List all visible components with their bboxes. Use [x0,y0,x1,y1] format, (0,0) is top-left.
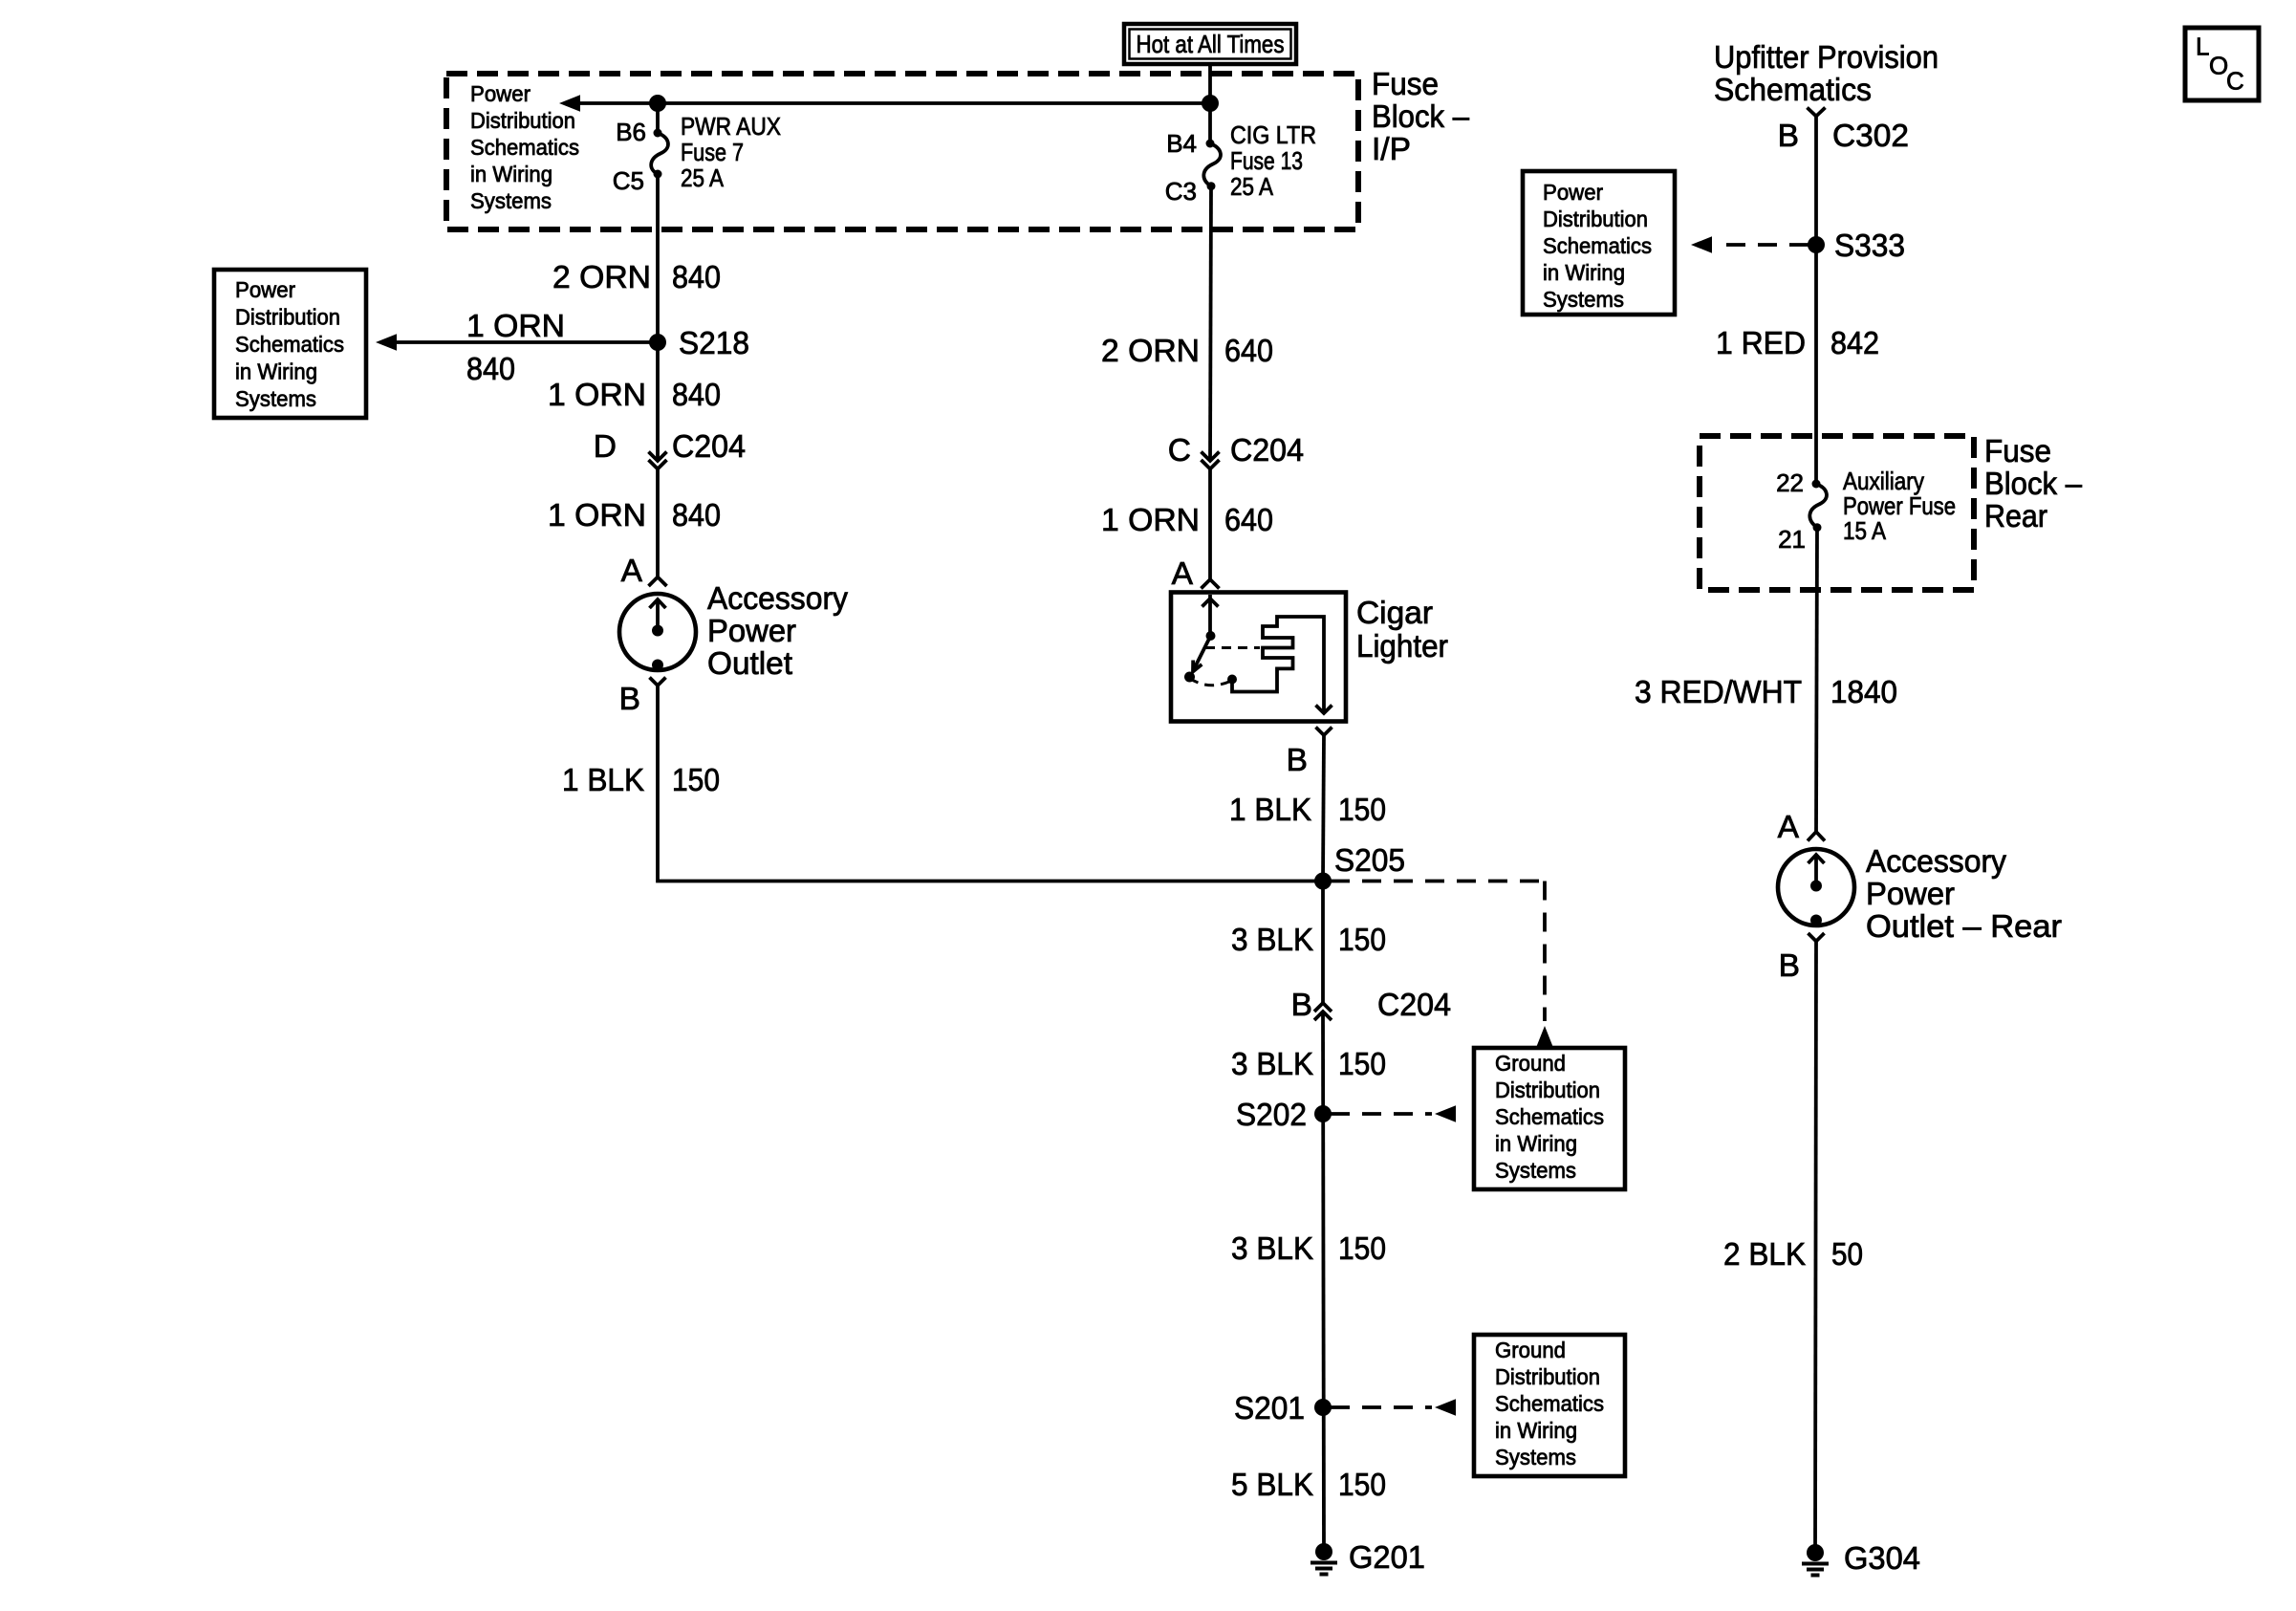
dashed reference from S201 to ground distribution box [1331,1399,1456,1415]
accessory power outlet rear label [1866,844,2062,945]
svg-text:640: 640 [1224,334,1273,369]
svg-text:840: 840 [466,352,515,387]
svg-text:150: 150 [1338,793,1386,828]
svg-text:B: B [1779,948,1800,984]
svg-text:Power: Power [470,81,531,106]
wire label 1 ORN 840 (branch) [466,309,565,387]
connector pin B chevron [1316,728,1332,736]
ground G201 [1310,1543,1337,1575]
fuse block I/P dashed box [446,74,1358,229]
svg-text:Upfitter Provision: Upfitter Provision [1714,40,1939,76]
svg-text:5 BLK: 5 BLK [1231,1468,1313,1503]
wire from S218 to Power Distribution Schematics (arrow) [376,334,658,350]
wire label 2 ORN 840 [552,260,721,295]
Fuse Block I/P title [1372,67,1469,167]
wire label 1 ORN 840 [548,498,721,533]
svg-text:S205: S205 [1334,843,1405,879]
accessory power outlet [619,594,696,671]
wire cigar lighter B to S205 [1323,735,1324,882]
svg-text:Systems: Systems [1543,287,1624,312]
svg-text:S201: S201 [1234,1391,1305,1426]
Power Distribution Schematics box (left) [214,270,366,418]
svg-text:in Wiring: in Wiring [1543,260,1625,285]
svg-text:S218: S218 [679,326,749,361]
wire label 2 BLK 50 [1723,1237,1863,1273]
svg-text:1 ORN: 1 ORN [548,498,646,533]
wire C204 B to ground G201 [1323,1012,1324,1552]
svg-text:Outlet: Outlet [707,646,793,682]
fuse auxiliary power 15A [1809,480,1827,533]
wire junction to fuse 7 [656,103,660,133]
connector pin A chevron [649,577,667,587]
svg-text:D: D [594,429,617,465]
Hot at All Times box [1124,24,1296,64]
svg-text:Hot at All Times: Hot at All Times [1137,30,1285,58]
ground G304 [1802,1544,1829,1576]
wire label 2 ORN 640 [1101,334,1273,369]
connector C204 pin C [1202,452,1220,469]
wire C5 to S218 [656,174,660,342]
svg-text:Systems: Systems [1495,1158,1576,1183]
splice S201 [1314,1399,1332,1416]
Fuse Block Rear title [1984,434,2082,534]
svg-text:3 BLK: 3 BLK [1231,1047,1313,1082]
svg-text:in Wiring: in Wiring [1495,1418,1577,1443]
connector pin B chevron [1809,933,1825,942]
svg-text:150: 150 [1338,1047,1386,1082]
svg-text:Systems: Systems [235,386,316,411]
svg-text:1 ORN: 1 ORN [466,309,565,344]
fuse 13 value label [1230,120,1316,201]
svg-text:Accessory: Accessory [1866,844,2006,880]
wire label 1 BLK 150 [562,763,720,798]
svg-text:Power: Power [1543,180,1603,205]
svg-text:25 A: 25 A [1230,172,1274,201]
wire fuse 21 to accessory power outlet rear [1816,528,1817,832]
svg-text:C: C [2226,67,2244,96]
svg-text:Block –: Block – [1984,467,2082,502]
wire label 1 ORN 640 [1101,503,1273,538]
connector pin B chevron [650,678,666,686]
svg-text:B4: B4 [1166,129,1197,158]
svg-text:Ground: Ground [1495,1338,1566,1362]
svg-text:Accessory: Accessory [707,581,848,617]
svg-text:150: 150 [1338,923,1386,958]
wire label 1 BLK 150 [1229,793,1386,828]
svg-text:A: A [621,554,643,589]
svg-text:B: B [1287,743,1308,778]
connector C204 pin D [649,452,667,469]
wire outlet B to S205 [658,686,1323,882]
svg-text:Systems: Systems [1495,1445,1576,1469]
cigar lighter [1171,593,1346,722]
svg-text:Distribution: Distribution [1495,1364,1600,1389]
svg-text:C204: C204 [1377,988,1451,1023]
wire label 3 BLK 150 [1231,923,1386,958]
splice S333 [1808,236,1825,253]
svg-text:Ground: Ground [1495,1051,1566,1076]
svg-text:Rear: Rear [1984,499,2047,534]
svg-text:Schematics: Schematics [1543,233,1652,258]
connector pin A chevron [1202,579,1220,589]
svg-text:Distribution: Distribution [1543,207,1648,231]
svg-text:S202: S202 [1236,1098,1307,1133]
wire label 1 ORN 840 [548,378,721,413]
svg-text:Power: Power [1866,877,1955,912]
svg-text:C3: C3 [1165,177,1197,206]
svg-text:in Wiring: in Wiring [470,162,552,186]
wire C3 to connector C204 C [1210,186,1211,461]
svg-text:B: B [1778,119,1799,154]
svg-text:150: 150 [1338,1231,1386,1267]
wire S205 to connector C204 B [1321,882,1325,1004]
wire label 5 BLK 150 [1231,1468,1386,1503]
connector pin A chevron [1808,832,1825,841]
svg-text:50: 50 [1831,1237,1863,1273]
svg-text:2 ORN: 2 ORN [1101,334,1200,369]
svg-text:Schematics: Schematics [1495,1104,1604,1129]
svg-text:Schematics: Schematics [1495,1391,1604,1416]
ground distribution schematics box 1 [1474,1048,1625,1189]
wire C204 to cigar lighter [1208,469,1212,580]
svg-text:Outlet – Rear: Outlet – Rear [1866,909,2062,945]
svg-text:640: 640 [1224,503,1273,538]
Upfitter Provision Schematics title [1714,40,1939,108]
svg-text:B: B [619,682,640,717]
wire outlet rear B to ground G304 [1815,942,1816,1554]
Power Distribution Schematics box (right) [1523,171,1675,315]
svg-text:25 A: 25 A [681,163,725,192]
svg-text:1840: 1840 [1830,675,1897,710]
junction node at pwr aux feed [649,95,666,112]
svg-text:150: 150 [672,763,720,798]
svg-text:1 ORN: 1 ORN [1101,503,1200,538]
svg-text:3 BLK: 3 BLK [1231,1231,1313,1267]
svg-text:PWR AUX: PWR AUX [681,112,781,141]
svg-text:Fuse 7: Fuse 7 [681,138,744,166]
svg-text:C302: C302 [1832,119,1909,154]
svg-text:Schematics: Schematics [1714,73,1872,108]
svg-text:842: 842 [1830,326,1879,361]
wire C302 to fuse block rear [1814,117,1818,485]
svg-text:A: A [1172,556,1194,592]
svg-text:Cigar: Cigar [1356,596,1433,631]
svg-text:Schematics: Schematics [470,135,579,160]
svg-text:1 ORN: 1 ORN [548,378,646,413]
svg-text:G201: G201 [1349,1540,1425,1576]
accessory power outlet rear [1778,849,1854,926]
svg-text:15 A: 15 A [1843,516,1887,545]
svg-text:Fuse: Fuse [1984,434,2051,469]
svg-text:in Wiring: in Wiring [235,359,317,384]
svg-text:1 RED: 1 RED [1716,326,1806,361]
svg-text:21: 21 [1778,525,1806,554]
LOC logo box [2185,28,2259,100]
svg-text:Systems: Systems [470,188,552,213]
svg-text:Power: Power [707,614,796,649]
fuse block rear dashed box [1700,436,1974,590]
dashed reference from S333 to power distribution box [1691,236,1809,252]
svg-text:2 ORN: 2 ORN [552,260,651,295]
svg-text:Distribution: Distribution [235,305,340,330]
svg-text:Distribution: Distribution [1495,1078,1600,1102]
svg-text:L: L [2196,33,2209,61]
splice S205 [1314,873,1332,890]
fuse PWR AUX Fuse 7 25A [651,129,668,179]
svg-text:C: C [1168,433,1191,468]
svg-text:Fuse 13: Fuse 13 [1230,146,1303,175]
svg-text:1 BLK: 1 BLK [1229,793,1311,828]
auxiliary power fuse value label [1843,467,1956,545]
svg-text:Lighter: Lighter [1356,629,1448,664]
wire label 3 BLK 150 [1231,1231,1386,1267]
svg-text:840: 840 [672,498,721,533]
svg-text:G304: G304 [1844,1541,1920,1577]
fuse CIG LTR Fuse 13 25A [1203,140,1221,191]
cigar lighter label [1356,596,1448,664]
dashed reference from S202 to ground distribution box [1331,1105,1456,1121]
svg-text:A: A [1778,810,1800,845]
splice S218 [649,334,666,351]
wire from Hot at All Times into fuse block [1208,64,1212,103]
wire label 1 RED 842 [1716,326,1879,361]
connector C302 pin B chevron [1808,108,1826,117]
svg-text:I/P: I/P [1372,132,1411,167]
svg-text:3 RED/WHT: 3 RED/WHT [1635,675,1802,710]
wire label 3 BLK 150 [1231,1047,1386,1082]
svg-text:840: 840 [672,378,721,413]
accessory power outlet label [707,581,848,682]
svg-text:1 BLK: 1 BLK [562,763,644,798]
svg-text:CIG LTR: CIG LTR [1230,120,1316,149]
svg-text:2 BLK: 2 BLK [1723,1237,1806,1273]
svg-text:Power: Power [235,277,295,302]
svg-text:S333: S333 [1834,229,1905,264]
svg-text:in Wiring: in Wiring [1495,1131,1577,1156]
svg-text:B6: B6 [616,118,646,146]
svg-text:C5: C5 [613,166,644,195]
ground distribution schematics box 2 [1474,1335,1625,1476]
svg-text:Schematics: Schematics [235,332,344,357]
dashed reference from S205 to ground distribution box [1331,882,1553,1048]
splice S202 [1314,1105,1332,1122]
fuse 7 value label [681,112,781,192]
svg-text:150: 150 [1338,1468,1386,1503]
svg-text:Distribution: Distribution [470,108,575,133]
Power Distribution Schematics note (inside fuse block) [470,81,579,213]
svg-text:B: B [1291,988,1312,1023]
svg-text:22: 22 [1776,468,1804,497]
wire S218 to connector C204 D [656,342,660,461]
svg-text:C204: C204 [1230,433,1304,468]
svg-text:Fuse: Fuse [1372,67,1439,102]
wire C204 to accessory power outlet [656,469,660,577]
junction node at cig ltr feed [1202,95,1219,112]
svg-text:840: 840 [672,260,721,295]
wire: feed bus with arrow to Power Distribution Schematics [559,95,1210,111]
connector C204 pin B [1314,1003,1332,1020]
svg-text:3 BLK: 3 BLK [1231,923,1313,958]
wire junction to fuse 13 [1208,103,1212,143]
svg-text:C204: C204 [672,429,746,465]
wire label 3 RED/WHT 1840 [1635,675,1897,710]
svg-text:Block –: Block – [1372,99,1469,135]
